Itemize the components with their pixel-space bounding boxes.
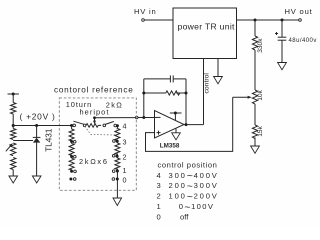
svg-text:LM358: LM358 — [160, 142, 180, 149]
resistor 15k — [252, 125, 264, 146]
wire control (power TR unit to op-amp output) — [203, 59, 205, 125]
junction output node A — [254, 19, 257, 22]
svg-text:control position: control position — [158, 161, 218, 170]
tap 2 — [116, 155, 119, 158]
junction output node B — [281, 19, 284, 22]
ground switch chain — [113, 198, 122, 206]
tap 1 — [116, 170, 119, 173]
tap D — [70, 170, 73, 173]
tap 0 — [116, 178, 119, 181]
ground under 15k — [251, 146, 260, 153]
contact switch pole L — [83, 124, 86, 127]
potentiometer helipot 2k — [86, 124, 101, 128]
svg-text:2: 2 — [157, 192, 161, 201]
ground pin V- of op-amp — [172, 129, 181, 140]
left chain resistor 1 — [69, 126, 74, 142]
resistor rail second — [11, 129, 16, 140]
svg-text:contorol reference: contorol reference — [54, 86, 134, 95]
svg-text:10k: 10k — [257, 89, 264, 100]
svg-text:0: 0 — [123, 175, 127, 184]
terminal HV out — [299, 19, 302, 22]
svg-text:HV in: HV in — [134, 7, 157, 16]
junction rail to reference line — [12, 124, 15, 127]
wire power TR unit to HV out — [237, 19, 299, 21]
junction op-amp output — [185, 123, 188, 126]
power pin V+ of op-amp — [170, 112, 182, 121]
left chain resistor 3 — [69, 157, 74, 172]
contact switch position 4 — [114, 124, 117, 127]
svg-text:HV out: HV out — [285, 7, 313, 16]
trimmer rail (variable resistor) — [6, 143, 16, 156]
left supply rail +20V — [8, 93, 19, 103]
switch arm R — [105, 122, 114, 125]
svg-text:3: 3 — [157, 181, 161, 190]
resistor 330k — [252, 20, 264, 90]
junction helipot left — [70, 124, 73, 127]
svg-text:15k: 15k — [257, 125, 264, 136]
wire HV in to power TR unit — [144, 19, 173, 21]
table control position — [157, 161, 219, 222]
svg-text:1: 1 — [157, 202, 161, 211]
terminal on reference box edge — [135, 116, 138, 119]
svg-text:off: off — [180, 213, 189, 222]
junction chain top — [116, 124, 119, 127]
ground TL431 — [32, 176, 41, 183]
svg-text:control: control — [204, 73, 211, 94]
right chain resistor 3-2 — [115, 141, 120, 156]
resistor rail top — [11, 103, 16, 129]
svg-text:48u/400v: 48u/400v — [289, 38, 317, 44]
svg-text:TL431: TL431 — [44, 128, 53, 152]
tap B — [70, 140, 73, 143]
mechanical link dashed — [85, 126, 117, 135]
svg-text:2kΩx6: 2kΩx6 — [79, 157, 109, 166]
svg-text:( +20V ): ( +20V ) — [20, 111, 56, 121]
capacitor 48u/400v — [275, 20, 317, 63]
wire inverting node vertical — [143, 79, 145, 118]
block power TR unit — [173, 8, 237, 59]
ground pin of power TR unit — [214, 59, 223, 84]
wire output node vertical — [185, 79, 187, 125]
svg-text:1: 1 — [123, 166, 127, 175]
op-amp U1 LM358 — [155, 111, 185, 150]
box contorol reference — [59, 98, 136, 190]
tap C — [70, 155, 73, 158]
svg-text:4: 4 — [123, 122, 127, 131]
svg-text:330k: 330k — [257, 38, 264, 53]
tap 3 — [116, 140, 119, 143]
wire op-amp + input feedback route — [146, 97, 233, 151]
tap E — [69, 178, 72, 181]
capacitor feedback — [144, 75, 186, 82]
resistor feedback — [142, 91, 187, 95]
right chain resistor 4-3 — [115, 126, 120, 141]
wire TL431 ref line — [13, 140, 33, 142]
resistor rail bottom — [11, 158, 16, 177]
potentiometer 10k — [233, 89, 264, 125]
contact switch pole R pivot — [103, 124, 106, 127]
left chain resistor 2 — [69, 142, 74, 157]
terminal HV in — [142, 19, 145, 22]
ground rail — [9, 176, 18, 183]
shunt regulator TL431 — [33, 124, 54, 176]
svg-text:0: 0 — [157, 213, 161, 222]
wiper helipot — [93, 116, 96, 124]
wire helipot wiper to op-amp — [95, 117, 136, 119]
ground under capacitor — [278, 63, 287, 70]
wire inverting input — [138, 117, 157, 119]
contact switch pole L pivot — [73, 124, 76, 127]
svg-text:heripot: heripot — [80, 108, 110, 117]
junction op-amp inverting input — [142, 116, 145, 119]
switch arm L — [73, 121, 84, 124]
svg-text:4: 4 — [157, 171, 161, 180]
wire main reference line — [13, 125, 70, 127]
wire op-amp output to control — [186, 124, 204, 126]
svg-text:3: 3 — [123, 137, 127, 146]
svg-text:2: 2 — [123, 152, 127, 161]
right chain resistor 2-1 — [115, 156, 120, 198]
svg-text:power TR unit: power TR unit — [178, 22, 236, 32]
